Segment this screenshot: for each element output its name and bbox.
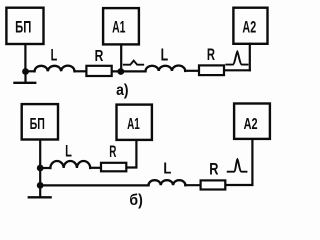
svg-text:БП: БП — [30, 115, 45, 133]
svg-text:А2: А2 — [242, 18, 256, 36]
svg-text:б): б) — [129, 192, 142, 209]
svg-text:А2: А2 — [244, 115, 258, 132]
svg-text:А1: А1 — [127, 115, 140, 133]
svg-text:А1: А1 — [112, 18, 126, 36]
svg-text:L: L — [161, 46, 169, 66]
svg-text:R: R — [109, 142, 116, 160]
svg-text:R: R — [209, 160, 218, 179]
svg-text:L: L — [65, 141, 72, 160]
svg-text:R: R — [95, 47, 104, 65]
svg-text:R: R — [207, 46, 216, 65]
svg-text:БП: БП — [15, 17, 31, 36]
svg-text:L: L — [51, 45, 58, 64]
svg-text:а): а) — [116, 81, 128, 99]
svg-text:L: L — [163, 161, 171, 178]
